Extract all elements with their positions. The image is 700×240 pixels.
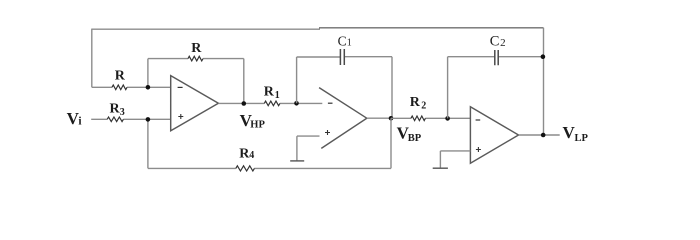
node VHP junction dot bbox=[242, 101, 247, 106]
capacitor C2 plates bbox=[495, 50, 498, 65]
wire: left vertical drop to resistor R bbox=[91, 29, 93, 88]
wire: feedback box of op1 (up, across, down to VHP) bbox=[148, 59, 244, 104]
node C2/top-wire junction dot bbox=[541, 54, 546, 59]
wire: op2 output to VBP node bbox=[367, 117, 391, 119]
wire: top feedback from VLP node to left R (left segment) bbox=[92, 28, 320, 30]
wire: op3 non-inverting input bbox=[440, 151, 470, 168]
resistor R (left, VLP feedback) bbox=[112, 85, 127, 90]
ground (op3) bbox=[433, 167, 448, 169]
node op1 non-inverting input junction dot bbox=[146, 117, 151, 122]
U1 minus pin mark bbox=[178, 86, 183, 88]
U2 plus pin mark bbox=[325, 130, 330, 135]
resistor R3 bbox=[107, 117, 123, 122]
node op1 inverting input junction dot bbox=[146, 85, 151, 90]
U3 plus pin mark bbox=[476, 147, 481, 152]
capacitor C2 box wires bbox=[448, 28, 544, 135]
wire: op1 inverting input line bbox=[92, 86, 171, 88]
wire: top feedback (right segment) bbox=[319, 27, 544, 29]
wire: op3 output VLP bbox=[519, 134, 560, 136]
svg-text:R: R bbox=[115, 69, 126, 84]
ground (op2) bbox=[290, 160, 304, 162]
svg-text:2: 2 bbox=[500, 37, 506, 49]
wire: op2 non-inverting input bbox=[297, 136, 320, 161]
resistor R1 bbox=[264, 101, 280, 106]
op-amp U2 (open triangle) bbox=[319, 88, 367, 149]
svg-text:R: R bbox=[191, 41, 202, 56]
wire: R4 bottom feedback from VBP to op1 plus input bbox=[148, 118, 391, 168]
op-amp U1 bbox=[171, 76, 219, 131]
capacitor C1 plates bbox=[340, 49, 344, 65]
node R2/C2 junction dot bbox=[445, 116, 450, 121]
svg-text:BP: BP bbox=[408, 133, 422, 144]
svg-text:C: C bbox=[338, 33, 347, 48]
node op2 inverting input junction dot bbox=[294, 101, 299, 106]
resistor R (op1 feedback) bbox=[188, 56, 203, 61]
svg-text:3: 3 bbox=[120, 107, 125, 118]
svg-text:C: C bbox=[490, 33, 500, 49]
resistor R2 bbox=[411, 116, 425, 121]
svg-text:1: 1 bbox=[347, 37, 352, 48]
svg-text:R: R bbox=[264, 85, 275, 100]
op-amp U3 bbox=[470, 107, 518, 163]
svg-text:1: 1 bbox=[275, 90, 280, 101]
U2 minus pin mark bbox=[328, 102, 333, 104]
svg-text:R: R bbox=[410, 95, 421, 110]
svg-text:2: 2 bbox=[421, 100, 426, 111]
U3 minus pin mark bbox=[476, 119, 481, 121]
svg-text:HP: HP bbox=[250, 119, 265, 130]
U1 plus pin mark bbox=[178, 114, 183, 119]
resistor R4 bbox=[236, 166, 255, 171]
wire: Vi input line bbox=[91, 118, 171, 120]
node VBP junction dot bbox=[389, 116, 394, 121]
wire: op1 output to op2 input (VHP line) bbox=[218, 102, 322, 104]
capacitor C1 box wires bbox=[297, 57, 392, 119]
svg-text:LP: LP bbox=[575, 133, 589, 144]
wire: VBP to op3 input bbox=[391, 117, 470, 119]
svg-text:i: i bbox=[78, 116, 82, 128]
svg-text:4: 4 bbox=[249, 150, 254, 161]
node VLP junction dot bbox=[541, 133, 546, 138]
